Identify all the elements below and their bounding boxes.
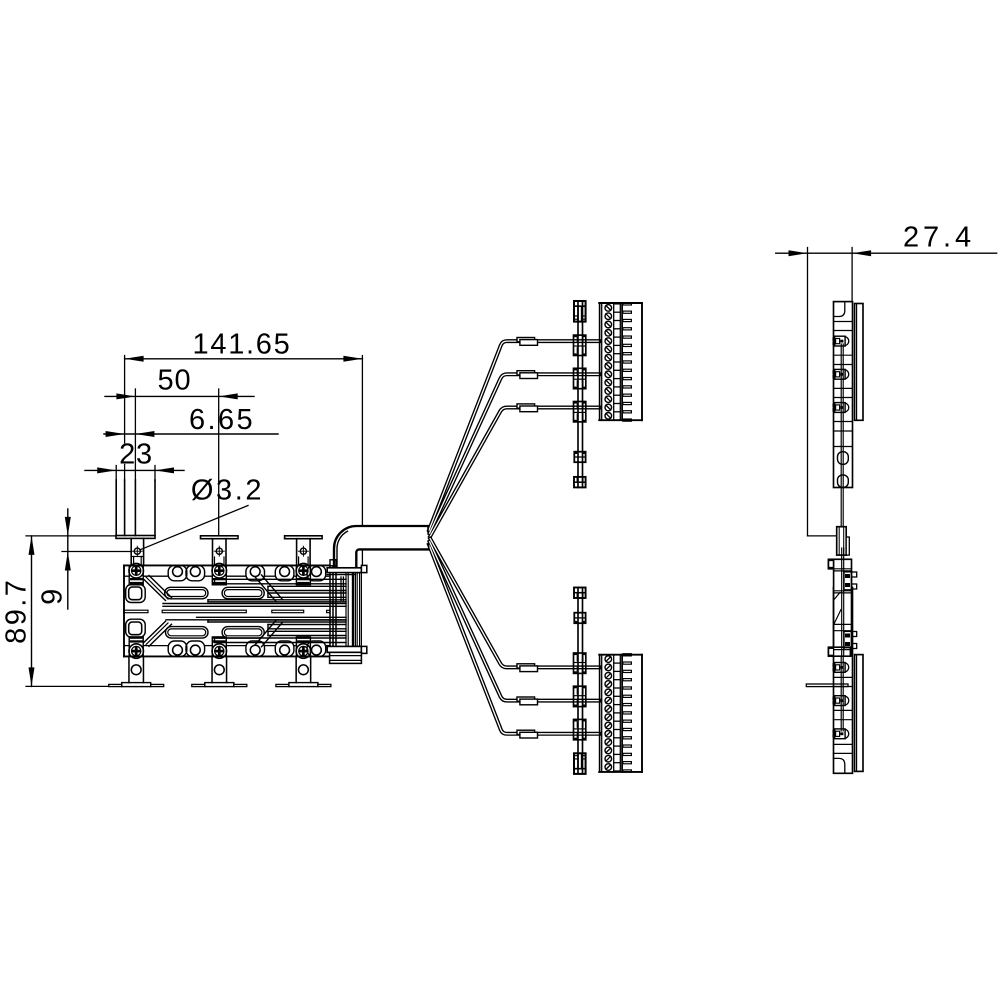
svg-text:141.65: 141.65 (193, 329, 292, 361)
cable elbow jacket (334, 526, 428, 567)
side view wire link (840, 487, 842, 527)
body bottom edge hole housings (168, 641, 187, 656)
terminal screws x14 (605, 305, 612, 312)
reference line y551 (62, 551, 131, 553)
svg-text:27.4: 27.4 (903, 221, 975, 253)
extension tick 135.4 (134, 389, 136, 481)
wires to upper terminal (429, 341, 600, 530)
extension stubs 23 (115, 466, 117, 482)
extension line left of 141.65 (124, 356, 126, 444)
extension line 218.7 (218, 389, 220, 536)
top screws row (129, 565, 143, 584)
diagonal strip D4 (256, 620, 277, 644)
bottom bracket leg 2 (211, 656, 213, 682)
svg-text:9: 9 (37, 588, 69, 605)
hole dia3.2 bracket B1 (134, 548, 140, 554)
svg-text:Ø3.2: Ø3.2 (191, 474, 264, 506)
slot S3 (166, 627, 209, 639)
top bracket B1 pedestal (130, 538, 132, 565)
rail wire clamp 2 (574, 368, 586, 388)
side view screw cluster lower (845, 634, 850, 638)
side view body flange bottom (828, 647, 850, 656)
rail mid clamp (574, 452, 585, 463)
svg-text:6.65: 6.65 (189, 404, 255, 436)
left rounded square hole lower (126, 619, 146, 637)
svg-text:23: 23 (119, 439, 153, 471)
dimension line 23 (85, 469, 184, 471)
body outline (124, 564, 330, 566)
extension line x852 (851, 248, 853, 302)
dimension line 141.65 (125, 358, 363, 360)
side view body inner lines (834, 568, 852, 570)
bottom bracket foot 2 (205, 683, 234, 687)
side view rail edge line (841, 548, 843, 656)
bottom bracket foot 1 (122, 683, 151, 687)
body top contour line (124, 575, 129, 577)
mount tab bottom right (327, 646, 361, 652)
side view body diagonals (835, 593, 841, 600)
side rail lower bumps (838, 452, 849, 465)
bottom bracket leg 1 (128, 656, 130, 682)
terminal comb teeth (623, 303, 632, 305)
extension line right of 141.65 (361, 356, 363, 526)
bottom screws row (129, 637, 143, 656)
dimension line 6.65 (104, 433, 278, 435)
slot S2 (222, 587, 264, 599)
top bracket B1 tall box (115, 480, 117, 536)
rail top end cap (574, 301, 586, 322)
side view lower assembly (mirrored) (833, 587, 863, 773)
end plate top small (330, 560, 336, 566)
dimension line 27.4 (776, 252, 997, 254)
upper terminal rail assembly (574, 301, 643, 487)
top bracket B3 column (296, 539, 298, 566)
crimp ferrules (517, 338, 535, 342)
svg-text:50: 50 (157, 365, 191, 397)
rail wire clamp 1 (574, 335, 586, 355)
leader line dia 3.2 (140, 506, 248, 550)
hole dia3.2 bracket B3 (300, 548, 306, 554)
side view body flange top (828, 559, 850, 569)
side view upper assembly (833, 302, 863, 488)
bottom bracket leg 3 (295, 656, 297, 682)
dimension line 50 (105, 395, 254, 397)
dimension line 9 (67, 509, 69, 609)
hole dia3.2 bracket B2 (216, 548, 222, 554)
side view screw cluster upper (845, 574, 850, 578)
busbar lines upper (215, 578, 347, 580)
side view body main (834, 559, 852, 656)
diagonal strip D2 (256, 578, 277, 602)
mount tab top right (327, 568, 361, 573)
side clamp 3 (835, 403, 845, 413)
rail wire clamp 3 (574, 402, 586, 422)
reference line y536 (26, 535, 116, 537)
reference base line y686 (26, 685, 109, 687)
side view foot line (806, 684, 848, 687)
side terminal block (855, 304, 863, 421)
din rail lines (577, 302, 579, 488)
cable jacket mouth caps (427, 526, 429, 532)
body middle rib (124, 610, 148, 613)
end plate bottom (330, 652, 362, 663)
slot S4 (222, 627, 264, 639)
extension line x807 (807, 248, 809, 536)
top bracket B2 column (212, 539, 214, 566)
lower terminal rail assembly (mirrored) (574, 588, 643, 774)
side clamp 2 (835, 369, 845, 379)
side rail column (834, 302, 853, 488)
slot S1 (165, 587, 208, 599)
dimension line 89.7 (31, 536, 33, 687)
end plate verticals (329, 565, 331, 656)
side wire line (840, 344, 842, 487)
bottom bracket foot 3 (289, 683, 318, 687)
rail bottom end cap (574, 477, 586, 488)
top bracket B3 cap (285, 536, 323, 539)
busbar lines lower (215, 642, 347, 644)
terminal cage dividers (614, 303, 621, 305)
body top edge hole housings (168, 565, 187, 580)
terminal block body (599, 303, 601, 420)
body bottom contour line (124, 645, 129, 647)
diagonal strip D1 (144, 579, 166, 601)
side rail divisions (834, 330, 853, 332)
top bracket B2 cap (201, 536, 239, 539)
svg-text:89.7: 89.7 (1, 578, 33, 644)
wires to lower terminal (429, 545, 600, 734)
side clamp 1 (835, 336, 845, 346)
side view cable gland (837, 527, 847, 555)
diagonal strip D3 (144, 621, 166, 643)
left rounded square hole upper (126, 585, 146, 603)
